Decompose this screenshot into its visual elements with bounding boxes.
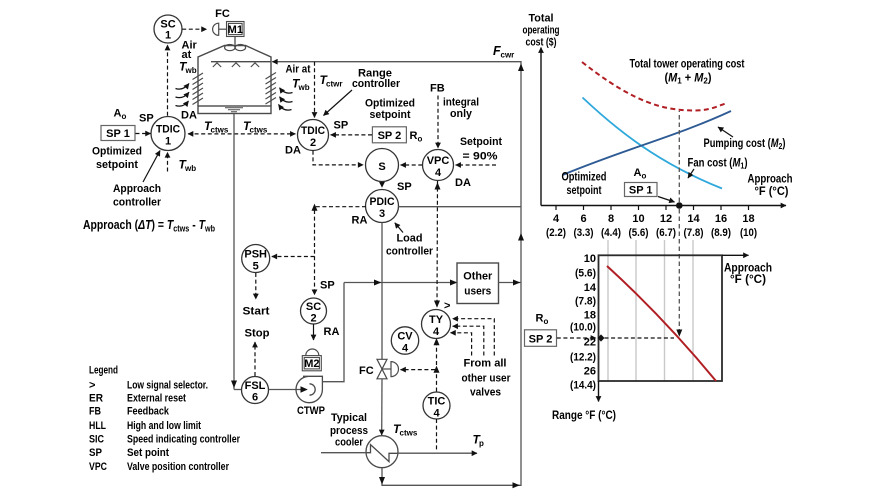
svg-text:SP 1: SP 1 — [629, 184, 653, 196]
wire branch to PSH5 dashed — [272, 256, 315, 258]
arrow right on header — [374, 280, 381, 286]
svg-text:6: 6 — [252, 391, 258, 403]
svg-text:Fan cost (M1): Fan cost (M1) — [688, 158, 748, 171]
svg-text:FB: FB — [430, 83, 445, 95]
wire supply header — [344, 282, 457, 284]
svg-text:M2: M2 — [304, 358, 319, 370]
svg-text:>: > — [89, 379, 95, 391]
curve total cost red dashed — [582, 62, 727, 110]
svg-text:A: A — [114, 108, 122, 120]
wire PDIC3 output to return riser — [399, 206, 522, 208]
svg-text:Pumping cost (M2): Pumping cost (M2) — [704, 138, 786, 151]
svg-text:PDIC: PDIC — [370, 196, 395, 208]
svg-text:Valve position controller: Valve position controller — [127, 461, 230, 473]
svg-text:controller: controller — [113, 197, 162, 209]
svg-text:DA: DA — [455, 177, 471, 189]
svg-text:Stop: Stop — [245, 328, 270, 340]
svg-text:Approach: Approach — [748, 174, 793, 186]
svg-text:cost ($): cost ($) — [526, 37, 557, 49]
setpoint box SP1 — [101, 126, 135, 141]
svg-text:RA: RA — [352, 215, 368, 227]
setpoint box SP2 chart — [525, 330, 557, 347]
svg-text:SP 1: SP 1 — [106, 128, 130, 140]
setpoint box SP1 chart — [625, 183, 658, 197]
svg-text:1: 1 — [165, 30, 171, 42]
svg-text:Low signal selector.: Low signal selector. — [127, 379, 208, 391]
svg-text:8: 8 — [608, 213, 614, 225]
wire SP2 chart dashed to frame — [557, 337, 596, 339]
label Ro at SP2 — [410, 130, 423, 144]
svg-text:Total tower operating cost: Total tower operating cost — [630, 59, 745, 71]
setpoint box SP2 — [372, 127, 406, 143]
svg-text:(2.2): (2.2) — [546, 227, 566, 239]
svg-text:setpoint: setpoint — [567, 185, 602, 197]
fan blades — [225, 45, 246, 51]
svg-text:14: 14 — [584, 282, 597, 294]
svg-text:6: 6 — [580, 213, 586, 225]
svg-text:CV: CV — [397, 330, 413, 342]
label Optimized setpoint mid — [365, 98, 415, 122]
svg-text:4: 4 — [435, 167, 442, 179]
label Load controller — [386, 233, 434, 258]
svg-text:1: 1 — [165, 135, 171, 147]
label Approach chart1 — [748, 174, 793, 199]
spray header wire — [211, 61, 271, 63]
svg-text:valves: valves — [470, 387, 501, 399]
svg-text:o: o — [544, 317, 549, 326]
label Tctws left — [204, 119, 229, 135]
svg-text:Setpoint: Setpoint — [460, 136, 502, 148]
chart2 left axis arrow — [598, 381, 600, 402]
chart1 x axis — [541, 205, 786, 207]
svg-text:ER: ER — [89, 392, 103, 404]
svg-text:operating: operating — [523, 25, 560, 37]
svg-text:p: p — [479, 439, 484, 448]
svg-text:VPC: VPC — [89, 461, 107, 473]
svg-text:wb: wb — [184, 164, 196, 173]
label Tctws at cooler — [393, 422, 418, 438]
wire Other users to riser — [499, 282, 522, 284]
chart1 y axis label — [523, 13, 560, 49]
wire VPC4 to TY4 dashed — [436, 181, 439, 307]
arrow up into TY4 bottom — [434, 338, 440, 345]
wire FB to VPC4 dashed — [437, 96, 439, 149]
legend block — [89, 364, 241, 472]
wire from other user valves 1 dashed — [453, 319, 495, 356]
svg-text:SP 2: SP 2 — [529, 334, 553, 346]
chart2 red curve — [607, 266, 716, 381]
controller PSH5 — [242, 245, 270, 273]
svg-text:(3.3): (3.3) — [574, 227, 594, 239]
svg-text:integral: integral — [443, 97, 479, 109]
wire valve to cooler — [381, 379, 383, 435]
svg-text:18: 18 — [584, 310, 596, 322]
wire TIC4 sensor dashed — [436, 419, 438, 451]
leader arrow Range controller to TDIC2 — [324, 90, 353, 116]
wire SC1 to M1 dome dashed — [182, 28, 206, 30]
wire basin supply down — [233, 114, 235, 390]
svg-text:SP: SP — [139, 113, 154, 125]
left louvers — [193, 73, 204, 105]
svg-text:(10.0): (10.0) — [570, 322, 596, 334]
svg-text:M1: M1 — [228, 24, 243, 36]
arrow right on bottom return — [513, 482, 520, 488]
wire FSL6 to pump — [269, 389, 301, 391]
leader arrow fan cost — [688, 169, 694, 178]
svg-text:SP: SP — [397, 181, 412, 193]
label integral only — [443, 97, 479, 121]
wire Tctwr dashed to TDIC2 — [314, 62, 316, 118]
svg-text:ctwr: ctwr — [326, 80, 342, 89]
wire SP2 to TDIC2 dashed — [331, 134, 372, 136]
controller TDIC1 — [151, 117, 185, 151]
diamond junction on frame — [598, 334, 605, 341]
svg-text:RA: RA — [324, 326, 340, 338]
svg-text:R: R — [410, 130, 418, 142]
svg-text:(M1 + M2): (M1 + M2) — [665, 73, 712, 86]
svg-text:A: A — [634, 167, 642, 179]
svg-text:Start: Start — [243, 306, 270, 318]
svg-text:TDIC: TDIC — [156, 123, 180, 135]
svg-text:10: 10 — [584, 253, 596, 265]
svg-text:Approach: Approach — [113, 183, 161, 195]
label Typical process cooler — [330, 412, 368, 449]
valve FC body — [377, 359, 387, 379]
svg-text:SP: SP — [89, 447, 102, 459]
chart1 x tick labels F — [553, 213, 755, 225]
svg-text:setpoint: setpoint — [370, 109, 411, 121]
svg-text:14: 14 — [687, 213, 700, 225]
svg-text:ctws: ctws — [250, 126, 268, 135]
svg-text:(7.8): (7.8) — [575, 296, 596, 308]
arrow into pump — [301, 386, 308, 392]
controller SC2 — [301, 298, 327, 324]
wire Tctws dashed TDIC1 to TDIC2 — [188, 133, 295, 135]
svg-text:(5.6): (5.6) — [575, 268, 596, 280]
svg-text:ctws: ctws — [211, 126, 229, 135]
svg-text:Load: Load — [397, 233, 423, 245]
label Approach formula — [83, 217, 215, 234]
svg-text:°F (°C): °F (°C) — [730, 274, 766, 286]
right louvers — [266, 73, 277, 105]
label Ro chart2 — [536, 313, 549, 327]
svg-text:VPC: VPC — [427, 155, 450, 167]
arrow up into VPC4 — [435, 182, 441, 189]
chart2 frame — [599, 255, 723, 381]
svg-text:TY: TY — [429, 314, 444, 326]
controller PDIC3 — [366, 190, 399, 223]
controller SC1 — [154, 15, 182, 43]
svg-text:(7.8): (7.8) — [684, 227, 704, 239]
dashed optimum vertical upper — [678, 111, 680, 202]
label CV4 — [391, 327, 418, 354]
curve fan cost light blue — [583, 98, 723, 189]
svg-text:(6.7): (6.7) — [656, 227, 676, 239]
svg-text:(8.9): (8.9) — [711, 227, 731, 239]
arrow up at valve junction — [434, 366, 440, 373]
svg-text:Optimized: Optimized — [365, 98, 415, 110]
spray nozzles — [213, 63, 259, 67]
svg-text:only: only — [450, 108, 473, 120]
cooling tower shell — [198, 46, 271, 107]
svg-text:FB: FB — [89, 406, 101, 418]
wire TY4 output to valve dome dashed — [401, 369, 436, 371]
svg-text:4: 4 — [433, 407, 440, 419]
svg-text:SP 2: SP 2 — [378, 130, 402, 142]
svg-text:Total: Total — [529, 13, 554, 25]
cooling tower basin — [198, 106, 271, 114]
svg-text:(10): (10) — [740, 227, 757, 239]
label optimized setpoint chart1 — [562, 172, 607, 198]
svg-text:process: process — [330, 425, 368, 437]
svg-text:TDIC: TDIC — [301, 125, 325, 137]
svg-text:SIC: SIC — [89, 434, 104, 446]
svg-text:S: S — [378, 161, 385, 173]
svg-text:>: > — [444, 300, 450, 312]
svg-text:wb: wb — [185, 66, 197, 75]
svg-text:o: o — [418, 135, 423, 144]
wire FSL6 to Stop dashed — [254, 342, 256, 376]
svg-text:2: 2 — [310, 312, 316, 324]
arrow up at PDIC3 branch corner — [312, 204, 318, 211]
label Air at Twb left — [179, 40, 198, 76]
curve pumping cost dark blue — [563, 111, 732, 175]
wire from other user valves 3 dashed — [450, 333, 471, 356]
svg-text:Optimized: Optimized — [92, 146, 142, 158]
label Air at Twb right — [286, 64, 311, 93]
process cooler — [366, 436, 398, 468]
arrow down to chart2 curve — [676, 330, 682, 337]
svg-text:HLL: HLL — [89, 420, 106, 432]
svg-text:(4.4): (4.4) — [601, 227, 621, 239]
svg-text:cooler: cooler — [335, 437, 364, 449]
svg-text:(12.2): (12.2) — [570, 352, 596, 364]
chart2 y labels — [570, 253, 597, 392]
label Optimized setpoint — [92, 146, 142, 172]
label Twb under TDIC1 — [179, 158, 197, 174]
summer S — [366, 149, 399, 182]
label Tctws right — [243, 119, 268, 135]
label Approach controller — [113, 183, 162, 209]
arrow down into TY4 — [434, 301, 440, 308]
svg-text:= 90%: = 90% — [463, 151, 498, 163]
svg-text:18: 18 — [742, 213, 754, 225]
leader arrow Load controller to PDIC3 — [395, 223, 403, 233]
wire TDIC1 to SC1 dashed — [167, 45, 169, 116]
svg-text:FSL: FSL — [245, 380, 266, 392]
svg-text:(14.4): (14.4) — [570, 380, 596, 392]
arrow up on return riser middle — [518, 233, 524, 241]
arrow at riser junction — [513, 280, 520, 286]
dashed inside chart2 — [605, 337, 675, 339]
wire TIC4 to TY4 junction dashed — [436, 372, 438, 392]
controller TDIC2 — [298, 120, 329, 151]
svg-text:SC: SC — [306, 301, 321, 313]
controller TIC4 — [423, 392, 450, 419]
svg-text:External reset: External reset — [127, 392, 186, 404]
label Fcwr — [493, 44, 514, 60]
optimum point dot — [676, 202, 683, 209]
dashed optimum vertical lower — [678, 209, 680, 330]
svg-text:DA: DA — [181, 110, 197, 122]
wire process outlet Tp — [398, 452, 477, 454]
svg-text:cwr: cwr — [501, 51, 515, 60]
controller VPC4 — [423, 150, 454, 181]
pump CTWP — [296, 376, 322, 402]
svg-text:16: 16 — [715, 213, 727, 225]
svg-text:(5.6): (5.6) — [629, 227, 649, 239]
svg-text:High and low limit: High and low limit — [127, 420, 201, 432]
wire SP1 to TDIC1 dashed — [136, 133, 151, 135]
svg-text:4: 4 — [433, 326, 440, 338]
svg-text:3: 3 — [379, 208, 385, 220]
leader arrow pumping cost — [718, 127, 733, 137]
label Setpoint 90 — [460, 136, 502, 163]
basin water level symbol — [225, 108, 243, 112]
leader arrow Approach controller to TDIC1 — [143, 151, 160, 183]
M1 actuator dome — [213, 23, 219, 35]
label From all other user valves — [462, 358, 512, 399]
box Other users — [457, 263, 499, 304]
chart1 axis ticks — [556, 206, 749, 211]
chart2 top axis arrow — [722, 254, 749, 256]
svg-text:setpoint: setpoint — [96, 159, 138, 171]
wire dome to M1 — [219, 28, 227, 30]
svg-text:o: o — [122, 112, 127, 121]
label Approach chart2 — [724, 263, 772, 287]
wire supply corner to FSL6 — [234, 389, 242, 391]
arrow into Other users — [450, 280, 457, 286]
svg-text:Other: Other — [463, 271, 493, 283]
right air flow arrows — [279, 88, 293, 110]
motor M2 — [302, 356, 321, 371]
svg-text:R: R — [536, 313, 544, 325]
svg-text:Optimized: Optimized — [562, 172, 607, 184]
selector TY4 — [422, 310, 451, 339]
chart1 x tick labels C — [546, 227, 757, 239]
svg-text:ctws: ctws — [400, 429, 418, 438]
svg-text:FC: FC — [359, 365, 374, 377]
svg-text:controller: controller — [386, 246, 434, 258]
svg-text:controller: controller — [352, 78, 401, 90]
valve FC stem and dome — [382, 368, 391, 370]
svg-text:5: 5 — [253, 260, 259, 272]
label Ao chart1 — [634, 167, 647, 181]
chart1 y axis — [540, 48, 542, 206]
svg-text:Approach: Approach — [724, 263, 772, 275]
fan drive shaft wire — [234, 37, 236, 45]
label Range controller — [352, 68, 401, 91]
label Tp — [473, 433, 485, 449]
svg-text:From all: From all — [464, 358, 507, 370]
svg-text:4: 4 — [402, 342, 409, 354]
arrow down on cooler outlet drop — [379, 477, 385, 485]
left air flow arrows — [176, 84, 190, 107]
wire PDIC3 to SC2 dashed — [315, 207, 367, 295]
svg-text:Set point: Set point — [127, 447, 169, 459]
wire SC2 to M2 dome — [313, 324, 315, 340]
svg-text:o: o — [642, 172, 647, 181]
label total tower operating cost — [630, 59, 745, 86]
svg-text:CTWP: CTWP — [297, 405, 325, 417]
wire chilled pipe PDIC3 to valve — [381, 223, 383, 360]
wire process inlet — [321, 452, 366, 454]
svg-text:Typical: Typical — [331, 412, 367, 424]
label Tctwr — [320, 73, 343, 89]
wire pump discharge riser — [322, 283, 344, 382]
svg-text:TIC: TIC — [428, 395, 446, 407]
svg-text:other user: other user — [462, 373, 512, 385]
wire from other user valves 2 dashed — [453, 326, 484, 355]
M2 actuator dome — [306, 349, 319, 355]
svg-text:Range °F (°C): Range °F (°C) — [552, 410, 616, 422]
svg-text:wb: wb — [298, 83, 310, 92]
svg-text:Legend: Legend — [89, 364, 118, 376]
svg-text:FC: FC — [215, 8, 230, 20]
svg-text:10: 10 — [632, 213, 644, 225]
label Ao — [114, 108, 127, 122]
svg-text:Feedback: Feedback — [127, 406, 170, 418]
svg-text:Approach (ΔT) = Tctws - Twb: Approach (ΔT) = Tctws - Twb — [83, 217, 215, 234]
arrow down on supply wire — [231, 381, 237, 389]
svg-text:Speed indicating controller: Speed indicating controller — [127, 434, 241, 446]
svg-text:12: 12 — [660, 213, 672, 225]
wire PSH5 to Start dashed — [255, 273, 257, 299]
controller FSL6 — [242, 377, 269, 404]
svg-text:Air at: Air at — [286, 64, 311, 76]
svg-text:users: users — [464, 286, 491, 298]
top return wire Fcwr — [272, 62, 521, 486]
svg-text:PSH: PSH — [244, 248, 267, 260]
wire TDIC2 to S dashed — [313, 151, 363, 165]
svg-text:4: 4 — [553, 213, 560, 225]
svg-text:SP: SP — [334, 120, 349, 132]
motor M1 — [227, 22, 245, 37]
wire setpoint to VPC4 dashed — [456, 164, 496, 166]
svg-text:SP: SP — [320, 280, 335, 292]
wire VPC4 to S dashed — [401, 164, 423, 166]
arrow up on return riser near top — [518, 64, 524, 72]
svg-text:°F (°C): °F (°C) — [755, 186, 789, 198]
wire junction to TY4 dashed — [436, 345, 438, 366]
wire S to PDIC3 dashed — [381, 182, 383, 188]
chart2 gridlines — [608, 240, 693, 381]
wire Twb input to TDIC1 dashed — [167, 152, 169, 171]
svg-text:2: 2 — [310, 137, 316, 149]
leader arrow SP1 to optimum dot — [658, 197, 675, 203]
svg-text:26: 26 — [584, 366, 596, 378]
svg-text:DA: DA — [285, 145, 301, 157]
